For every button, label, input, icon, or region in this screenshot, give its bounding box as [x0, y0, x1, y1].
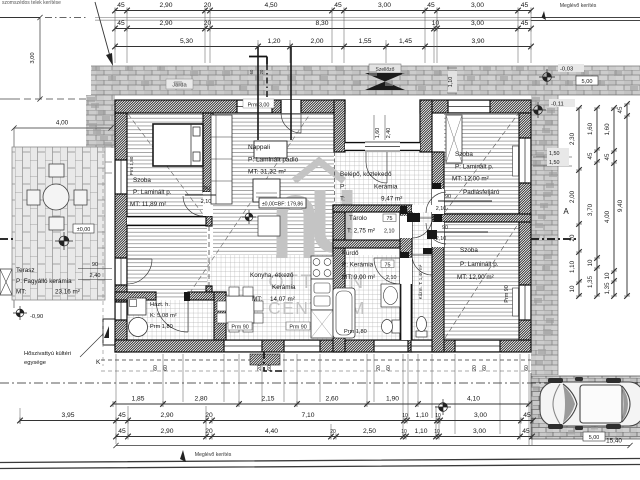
- dining chairs: [217, 287, 263, 332]
- door arc szoba2: [426, 192, 446, 213]
- svg-text:45: 45: [587, 152, 594, 159]
- svg-text:Prm 90: Prm 90: [289, 325, 306, 331]
- right wall: [519, 113, 531, 340]
- porch right wall: [420, 100, 432, 152]
- svg-text:Prm 90: Prm 90: [504, 285, 510, 302]
- szoba1 laminate floor: [127, 113, 203, 214]
- terrace chairs: [27, 164, 87, 230]
- svg-text:90: 90: [445, 194, 451, 200]
- svg-text:2,10: 2,10: [436, 206, 447, 212]
- svg-text:Terasz: Terasz: [16, 267, 35, 274]
- svg-text:P: Laminált p.: P: Laminált p.: [455, 164, 494, 171]
- wc tile floor: [412, 255, 432, 340]
- wall szoba2/szoba3: [434, 214, 531, 222]
- svg-text:P: Fagyálló kerámia: P: Fagyálló kerámia: [16, 278, 72, 285]
- door arc szoba3: [426, 223, 446, 244]
- svg-text:T:: T:: [340, 196, 345, 203]
- toilet: [392, 320, 400, 333]
- svg-text:45: 45: [604, 153, 611, 160]
- svg-text:P: Laminált p.: P: Laminált p.: [133, 189, 172, 196]
- section line B bottom: [264, 352, 282, 371]
- door gap corridor-belépő: [412, 205, 432, 212]
- terrace table: [43, 184, 69, 210]
- svg-text:45: 45: [523, 412, 531, 419]
- top wall right segment: [420, 100, 531, 113]
- svg-text:20: 20: [569, 234, 576, 241]
- svg-text:5,30: 5,30: [180, 38, 193, 45]
- svg-text:2,10: 2,10: [386, 275, 397, 281]
- svg-text:Szoba: Szoba: [133, 177, 151, 184]
- stub walls open-plan divider: [206, 216, 212, 226]
- svg-text:45: 45: [521, 2, 529, 9]
- svg-text:45: 45: [617, 106, 624, 113]
- sidewalk band top: [91, 66, 640, 95]
- svg-text:10: 10: [435, 413, 441, 419]
- bottom dim row B: [20, 420, 533, 422]
- szoba2 attic diagonal: [445, 114, 518, 212]
- window szoba1 left wall: [115, 160, 127, 194]
- svg-text:MT:: MT:: [252, 296, 262, 303]
- level -0,03: [558, 64, 584, 72]
- svg-text:±0,00=BF: 179,86: ±0,00=BF: 179,86: [262, 202, 303, 208]
- svg-text:8,30: 8,30: [315, 20, 328, 27]
- door arc terrace: [127, 259, 152, 284]
- svg-text:MT: 31,32 m²: MT: 31,32 m²: [248, 169, 287, 176]
- sofa nappali: [211, 115, 232, 204]
- svg-text:-0,11: -0,11: [551, 102, 564, 108]
- svg-text:A: A: [563, 207, 569, 216]
- svg-text:P: Laminált p.: P: Laminált p.: [460, 261, 499, 268]
- left wall: [115, 113, 127, 352]
- door arc taroló: [412, 218, 432, 238]
- svg-text:MT:: MT:: [16, 289, 26, 296]
- top dimension row 1: [115, 10, 531, 12]
- svg-text:4,10: 4,10: [467, 396, 480, 403]
- svg-text:7,10: 7,10: [301, 412, 314, 419]
- site dim 3,00 left: [39, 18, 41, 100]
- radiators: [513, 146, 519, 176]
- door gap szoba3: [432, 222, 444, 247]
- svg-text:egysége: egysége: [24, 360, 46, 366]
- sidewalk width dim: [448, 71, 457, 93]
- svg-text:1,35: 1,35: [587, 275, 594, 288]
- svg-text:45: 45: [117, 2, 125, 9]
- heat pump unit: [103, 319, 115, 345]
- svg-text:4,00: 4,00: [56, 120, 69, 127]
- svg-text:T: 2,75 m²: T: 2,75 m²: [347, 228, 375, 235]
- svg-text:1,60: 1,60: [587, 122, 594, 135]
- svg-text:4,40: 4,40: [265, 428, 278, 435]
- section line B top: [257, 47, 259, 140]
- svg-text:1,60: 1,60: [604, 123, 611, 136]
- svg-text:1,10: 1,10: [569, 260, 576, 273]
- svg-text:3,90: 3,90: [471, 38, 484, 45]
- svg-text:20: 20: [259, 69, 264, 74]
- svg-text:-0,90: -0,90: [30, 314, 43, 320]
- entrance door sill: [365, 142, 400, 151]
- svg-text:Tárolo: Tárolo: [349, 215, 367, 222]
- svg-text:3,00: 3,00: [471, 20, 484, 27]
- bottom total dim: [116, 445, 630, 447]
- szoba1 bottom wall (double line): [127, 216, 206, 226]
- svg-text:23,16 m²: 23,16 m²: [55, 289, 80, 296]
- svg-text:P: Kerámia: P: Kerámia: [342, 262, 374, 269]
- svg-text:60: 60: [153, 365, 159, 371]
- svg-text:2,10: 2,10: [436, 236, 447, 242]
- svg-text:1,45: 1,45: [399, 38, 412, 45]
- svg-text:45: 45: [522, 428, 530, 435]
- svg-text:4,00: 4,00: [604, 210, 611, 223]
- right window dims 1,50: [533, 157, 572, 166]
- svg-text:9,40: 9,40: [617, 199, 624, 212]
- szoba3 diagonal: [445, 224, 518, 338]
- svg-text:2,10: 2,10: [384, 229, 395, 235]
- door arc szoba1: [183, 196, 203, 216]
- terrace door opening: [115, 258, 127, 285]
- svg-text:1,55: 1,55: [358, 38, 371, 45]
- Prm 90 labels: [228, 322, 252, 330]
- svg-text:4,50: 4,50: [264, 2, 277, 9]
- svg-text:Belépő, közlekedő: Belépő, közlekedő: [340, 171, 392, 178]
- kitchen tile floor: [207, 255, 333, 340]
- svg-text:15,40: 15,40: [606, 438, 622, 445]
- svg-text:60: 60: [482, 365, 488, 371]
- svg-text:3,70: 3,70: [587, 203, 594, 216]
- porch front wall w/ entrance door: [345, 142, 365, 151]
- svg-text:2,40: 2,40: [386, 128, 392, 139]
- svg-text:9,47 m²: 9,47 m²: [381, 196, 402, 203]
- svg-text:Nappali: Nappali: [248, 144, 270, 151]
- sidewalk right column: [531, 95, 558, 375]
- eaves dashed lines: [101, 359, 531, 361]
- svg-text:10: 10: [587, 259, 594, 266]
- fence line across top: [95, 18, 531, 21]
- svg-text:Szoba: Szoba: [455, 151, 473, 158]
- svg-text:90: 90: [442, 225, 448, 231]
- wc toilet: [416, 331, 427, 337]
- open boundary dashed dining/kitchen: [208, 226, 210, 288]
- svg-text:2,90: 2,90: [160, 412, 173, 419]
- svg-text:Prm 1,80: Prm 1,80: [344, 329, 367, 335]
- door arc wc: [412, 255, 432, 275]
- svg-text:1,10: 1,10: [415, 412, 428, 419]
- svg-text:75: 75: [387, 216, 393, 222]
- corridor tile floor: [412, 205, 432, 255]
- door arc entrance: [366, 152, 387, 183]
- svg-text:45: 45: [427, 2, 435, 9]
- szoba2 laminate floor: [444, 113, 519, 214]
- watermark logo OC: [282, 190, 347, 258]
- diagonal dashed living area: [185, 114, 310, 300]
- wall utility top: [115, 292, 156, 300]
- svg-text:2,50: 2,50: [363, 428, 376, 435]
- wall taroló bottom: [333, 240, 412, 248]
- bottom dim row A: [113, 403, 529, 405]
- door gap szoba1: [203, 192, 213, 216]
- svg-text:1,90: 1,90: [386, 396, 399, 403]
- svg-text:20: 20: [205, 428, 213, 435]
- terrace tiled floor: [12, 147, 105, 300]
- back door bottom wall: [411, 340, 432, 352]
- driveway: [531, 376, 640, 439]
- svg-text:K: K: [96, 359, 101, 366]
- door arc bathroom: [374, 258, 400, 284]
- svg-text:14,07 m²: 14,07 m²: [270, 296, 295, 303]
- existing fence top right: [531, 18, 640, 21]
- svg-text:1,50: 1,50: [549, 160, 560, 166]
- fridge: [311, 310, 333, 338]
- svg-text:Fürdő: Fürdő: [342, 250, 359, 257]
- svg-text:20: 20: [257, 365, 263, 371]
- szoba2 closet: [446, 115, 462, 163]
- svg-text:2,15: 2,15: [261, 396, 274, 403]
- svg-text:Meglévő kerítés: Meglévő kerítés: [195, 452, 232, 458]
- svg-text:45: 45: [521, 20, 529, 27]
- svg-text:Meglévő kerítés: Meglévő kerítés: [560, 3, 597, 9]
- svg-text:2,00: 2,00: [569, 190, 576, 203]
- window kitchen bottom 2: [284, 340, 320, 352]
- exterior step: [250, 354, 280, 365]
- svg-text:Hőszivattyú kültéri: Hőszivattyú kültéri: [24, 351, 71, 357]
- brick shading patches: [87, 66, 638, 435]
- top extension lines: [115, 12, 531, 63]
- site dim 4,00: [14, 127, 111, 129]
- door arc utility: [156, 300, 188, 332]
- svg-text:3,00: 3,00: [473, 428, 486, 435]
- door gap szoba2: [432, 189, 444, 214]
- szoba1 diagonal dashed: [128, 114, 202, 213]
- svg-text:2,40: 2,40: [90, 273, 101, 279]
- svg-text:1,20: 1,20: [267, 38, 280, 45]
- svg-text:60: 60: [249, 69, 254, 74]
- svg-text:10: 10: [569, 285, 576, 292]
- svg-text:Kőzm. T: 1,40 m²: Kőzm. T: 1,40 m²: [418, 264, 423, 299]
- window bathroom bottom: [374, 340, 408, 352]
- open boundary dashed: [334, 152, 336, 205]
- top wall left segment: [115, 100, 345, 113]
- svg-text:Prm 1,80: Prm 1,80: [129, 156, 134, 175]
- window utility left wall: [115, 302, 127, 320]
- utility room tile floor: [127, 300, 214, 340]
- svg-text:60: 60: [524, 365, 530, 371]
- door gap taroló: [400, 216, 412, 238]
- svg-text:szomszédos telek kerítése: szomszédos telek kerítése: [2, 0, 61, 6]
- window szoba2 top: [448, 100, 490, 113]
- Prm 3,00 label: [243, 99, 274, 108]
- svg-text:K: 5,08 m²: K: 5,08 m²: [150, 313, 177, 319]
- wall szoba1/nappali: [203, 113, 213, 192]
- wall utility right: [214, 292, 226, 340]
- window szoba2 right: [519, 138, 531, 183]
- wall kitchen/bath column: [333, 205, 345, 352]
- svg-text:20: 20: [204, 2, 212, 9]
- level marker nappali: [242, 210, 256, 224]
- svg-text:10: 10: [432, 20, 440, 27]
- svg-text:3,00: 3,00: [378, 2, 391, 9]
- svg-text:2,00: 2,00: [310, 38, 323, 45]
- bottom wall: [115, 340, 531, 352]
- right dim column 3: [613, 108, 615, 296]
- bathtub: [333, 288, 355, 338]
- level cross driveway: [435, 399, 451, 415]
- porch left wall: [334, 100, 345, 152]
- bathroom sink: [381, 284, 400, 307]
- svg-text:1,10: 1,10: [414, 428, 427, 435]
- svg-text:P: Laminált padló: P: Laminált padló: [248, 157, 299, 164]
- svg-text:1,60: 1,60: [375, 128, 381, 139]
- door gap bathroom: [400, 258, 412, 284]
- svg-text:10: 10: [401, 429, 407, 435]
- level label nappali: [259, 198, 306, 208]
- svg-text:45: 45: [117, 20, 125, 27]
- armchair nappali: [253, 179, 280, 202]
- svg-text:MT: 12,90 m²: MT: 12,90 m²: [457, 274, 494, 281]
- svg-text:60: 60: [386, 365, 392, 371]
- partition wall white core: [401, 284, 411, 340]
- svg-text:Konyha, étkező: Konyha, étkező: [250, 272, 294, 279]
- svg-text:Szoba: Szoba: [460, 247, 478, 254]
- tv cabinet nappali: [254, 141, 287, 158]
- right dim column 4: [626, 104, 628, 296]
- svg-text:Szellőző: Szellőző: [376, 67, 395, 73]
- door jambs: [184, 183, 442, 301]
- coffee table: [258, 216, 280, 236]
- nappali laminate floor: [213, 113, 334, 255]
- level marker terrace: [55, 232, 73, 250]
- wall belépő/szoba2 W2: [432, 152, 444, 352]
- svg-text:2,90: 2,90: [159, 20, 172, 27]
- svg-text:20: 20: [205, 412, 213, 419]
- svg-text:2,90: 2,90: [159, 2, 172, 9]
- existing fence bottom: [0, 459, 640, 469]
- window szoba3 bottom: [455, 340, 500, 352]
- svg-text:Kerámia: Kerámia: [272, 284, 296, 291]
- svg-text:10: 10: [604, 272, 611, 279]
- sidewalk left column: [86, 95, 115, 148]
- svg-text:MT: 9,00 m²: MT: 9,00 m²: [342, 274, 375, 281]
- dining table: [226, 296, 254, 323]
- bottom dim row C: [116, 436, 532, 438]
- svg-text:Prm 1,80: Prm 1,80: [150, 324, 173, 330]
- svg-text:5,00: 5,00: [582, 79, 593, 85]
- svg-text:1,35: 1,35: [604, 282, 611, 295]
- level -0,11: [549, 99, 575, 107]
- svg-text:1,85: 1,85: [131, 396, 144, 403]
- svg-text:45: 45: [334, 2, 342, 9]
- svg-text:75: 75: [385, 263, 391, 269]
- stove: [311, 256, 333, 279]
- door gap nappali top: [281, 100, 301, 113]
- svg-text:5,00: 5,00: [589, 435, 600, 441]
- window kitchen bottom 1: [224, 340, 262, 352]
- svg-text:2,90: 2,90: [160, 428, 173, 435]
- terrace dims: [62, 162, 112, 173]
- section line A: [531, 238, 576, 240]
- wall corridor/bath W1: [400, 212, 412, 352]
- driveway dim 5,00: [583, 432, 605, 441]
- wall taroló top: [333, 205, 412, 212]
- svg-text:2,60: 2,60: [325, 396, 338, 403]
- door arc nappali top: [281, 113, 301, 133]
- entry hall tile floor: [335, 152, 432, 205]
- szoba3 laminate floor: [444, 222, 519, 340]
- svg-text:45: 45: [118, 428, 126, 435]
- svg-text:90: 90: [204, 186, 210, 192]
- svg-text:P:: P:: [340, 184, 346, 191]
- bottom vertical extension lines: [20, 354, 532, 445]
- svg-text:20: 20: [472, 365, 478, 371]
- svg-text:Padlásfeljáró: Padlásfeljáró: [463, 189, 500, 196]
- dining laminate floor: [127, 226, 207, 300]
- svg-text:90: 90: [92, 262, 98, 268]
- svg-text:-0,03: -0,03: [560, 67, 573, 73]
- bathroom tile floor: [345, 255, 400, 340]
- svg-text:2,80: 2,80: [194, 396, 207, 403]
- terrace door dims 90/2,40: [78, 269, 112, 280]
- svg-text:2,10: 2,10: [201, 199, 212, 205]
- level marker -0,90: [13, 306, 27, 320]
- washing machine: [129, 318, 148, 337]
- roof vent symbol: [369, 64, 401, 73]
- svg-text:3,00: 3,00: [471, 2, 484, 9]
- svg-text:Prm 90: Prm 90: [231, 325, 248, 331]
- right dim column 1: [578, 108, 580, 296]
- Jarda label: [166, 79, 193, 89]
- top dimension row 2: [115, 28, 531, 30]
- svg-text:1,50: 1,50: [549, 151, 560, 157]
- svg-text:20: 20: [376, 365, 382, 371]
- svg-text:3,00: 3,00: [30, 52, 36, 63]
- pergola post: [0, 269, 12, 295]
- svg-text:2,30: 2,30: [569, 132, 576, 145]
- svg-text:45: 45: [118, 412, 126, 419]
- window nappali top: [237, 100, 272, 113]
- right dim column 2: [596, 108, 598, 296]
- svg-text:MT: 11,89 m²: MT: 11,89 m²: [130, 201, 166, 208]
- top dimension row 3: [115, 46, 531, 48]
- svg-text:20: 20: [330, 429, 336, 435]
- svg-text:10: 10: [434, 429, 440, 435]
- svg-text:±0,00: ±0,00: [77, 227, 90, 233]
- svg-text:3,00: 3,00: [474, 412, 487, 419]
- svg-text:Házt. h.: Házt. h.: [150, 302, 170, 308]
- svg-text:MT: 12,00 m²: MT: 12,00 m²: [452, 176, 489, 183]
- window szoba3 right: [519, 285, 531, 320]
- utility cabinet: [128, 298, 146, 315]
- kitchen sink counter: [311, 279, 333, 310]
- svg-text:60: 60: [163, 365, 169, 371]
- svg-text:3,95: 3,95: [61, 412, 74, 419]
- svg-text:Kerámia: Kerámia: [374, 184, 398, 191]
- bed szoba1: [153, 124, 203, 166]
- svg-text:10: 10: [402, 413, 408, 419]
- car: [540, 382, 640, 426]
- svg-text:60: 60: [267, 365, 273, 371]
- svg-text:1,10: 1,10: [448, 77, 454, 88]
